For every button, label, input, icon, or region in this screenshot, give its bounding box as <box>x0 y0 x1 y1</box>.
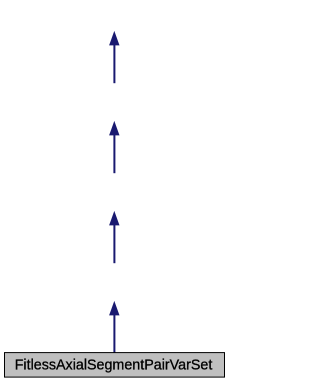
node box FitlessAxialSegmentPairVarSet (current class, grey fill) <box>5 353 225 378</box>
inheritance arrow 4 (bottom, from current class) : head <box>109 301 119 316</box>
inheritance arrow 2 : head <box>109 121 119 136</box>
inheritance arrow 3 : shaft <box>113 224 115 263</box>
inheritance graph for FitlessAxialSegmentPairVarSet <box>0 0 229 384</box>
inheritance arrow 3 : head <box>109 211 119 226</box>
inheritance arrow 1 : shaft <box>113 44 115 83</box>
svg-text:FitlessAxialSegmentPairVarSet: FitlessAxialSegmentPairVarSet <box>15 358 213 374</box>
inheritance arrow 2 : shaft <box>113 134 115 173</box>
inheritance arrow 4 : shaft <box>113 314 115 352</box>
inheritance arrow 1 (topmost) : head <box>109 31 119 46</box>
